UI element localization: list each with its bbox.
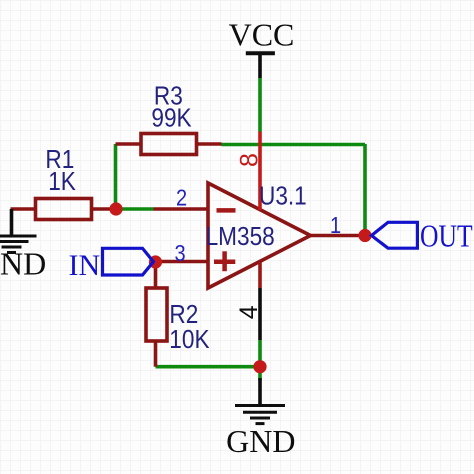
ground symbol left <box>0 209 37 253</box>
svg-text:1K: 1K <box>48 168 76 197</box>
junction ground node <box>253 360 266 373</box>
svg-text:OUT: OUT <box>420 219 473 254</box>
wire R3 left down to node A <box>114 144 118 209</box>
wire feedback horizontal (R3 right to output column) <box>222 143 366 147</box>
svg-text:8: 8 <box>235 153 263 167</box>
resistor R2 <box>146 262 167 367</box>
junction IN node <box>149 255 162 268</box>
svg-text:IN: IN <box>69 249 101 282</box>
svg-text:GND: GND <box>0 246 46 282</box>
svg-text:10K: 10K <box>169 325 209 354</box>
resistor R3 <box>116 134 222 155</box>
junction node A <box>109 202 122 215</box>
port IN flag <box>103 248 154 275</box>
wire pin 4 to ground node <box>258 340 262 381</box>
pin 4 lower black segment <box>258 288 262 340</box>
junction output node <box>358 229 371 242</box>
svg-text:U3.1: U3.1 <box>259 182 307 211</box>
pin 2 <box>154 207 209 211</box>
power symbol VCC stub <box>258 53 262 78</box>
svg-text:99K: 99K <box>151 104 191 133</box>
svg-text:VCC: VCC <box>229 17 295 53</box>
svg-text:GND: GND <box>226 423 295 459</box>
wire VCC vertical green <box>258 78 262 132</box>
op-amp U3.1 body <box>208 183 311 288</box>
pin 1 <box>311 234 366 238</box>
port OUT flag <box>372 222 418 248</box>
power symbol VCC bar <box>246 51 275 55</box>
pin 3 <box>156 260 209 264</box>
plus mark <box>214 251 235 271</box>
svg-text:3: 3 <box>175 239 186 266</box>
wire feedback vertical down to output node <box>363 144 367 236</box>
wire node A to pin 2 <box>114 207 154 211</box>
svg-text:LM358: LM358 <box>206 223 275 252</box>
resistor R1 <box>11 199 117 220</box>
minus mark <box>217 208 236 213</box>
svg-text:1: 1 <box>330 212 341 239</box>
pin 8 <box>258 132 262 211</box>
pin 4 upper red segment <box>258 262 262 288</box>
svg-text:2: 2 <box>176 184 187 211</box>
wire R2 bottom to ground node <box>156 365 261 369</box>
ground symbol bottom <box>235 378 285 424</box>
svg-text:4: 4 <box>235 305 263 319</box>
